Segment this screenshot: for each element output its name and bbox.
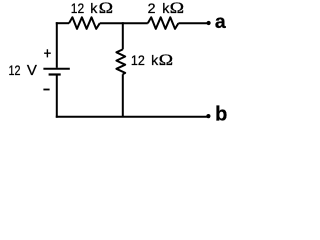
wire top middle segment	[100, 22, 148, 24]
label source value 12 V	[9, 62, 37, 79]
resistor R1 12 kohm (top left zigzag)	[69, 17, 100, 29]
node a terminal dot	[207, 21, 211, 25]
minus sign	[43, 89, 49, 91]
svg-text:k: k	[90, 1, 98, 17]
resistor R2 2 kohm (top right zigzag)	[148, 17, 179, 29]
battery V1 positive long plate	[43, 68, 69, 70]
svg-text:12: 12	[71, 1, 84, 17]
wire top-right segment to node a	[178, 22, 207, 24]
label R1 value 12 kohm	[71, 0, 113, 17]
resistor R3 12 kohm (middle vertical zigzag)	[116, 49, 125, 74]
svg-text:a: a	[215, 11, 226, 33]
label R2 value 2 kohm	[148, 0, 185, 17]
wire middle rail upper	[122, 22, 124, 49]
label R3 value 12 kohm	[131, 52, 173, 69]
wire bottom rail to node b	[56, 116, 207, 118]
battery V1 negative short plate	[49, 73, 61, 75]
wire middle rail lower	[122, 74, 124, 117]
node b terminal dot	[206, 114, 210, 118]
svg-text:12: 12	[131, 53, 145, 69]
wire top-left segment	[56, 22, 69, 24]
svg-text:12: 12	[9, 63, 21, 79]
svg-text:Ω: Ω	[99, 0, 114, 17]
svg-text:b: b	[215, 104, 227, 126]
wire left rail lower (battery - to bottom rail)	[56, 76, 58, 118]
svg-text:Ω: Ω	[159, 52, 174, 69]
svg-text:2: 2	[148, 1, 156, 17]
wire left rail upper (to battery + plate)	[56, 22, 58, 68]
plus sign	[44, 49, 51, 57]
svg-text:V: V	[27, 62, 37, 79]
svg-text:Ω: Ω	[170, 0, 185, 17]
